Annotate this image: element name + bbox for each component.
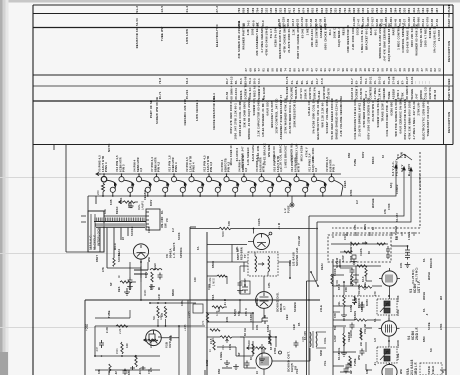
grid cap V5B (269, 232, 272, 235)
svg-text:470K: 470K (350, 189, 353, 196)
svg-text:PIN 3: PIN 3 (122, 164, 126, 172)
svg-text:+245: +245 (187, 311, 191, 318)
svg-text:SCREW TU: SCREW TU (243, 84, 247, 100)
dial lamp resistor (119, 201, 138, 204)
bypass cap (352, 298, 357, 306)
svg-text:PIN 3: PIN 3 (332, 164, 336, 172)
svg-text:68 O: 68 O (150, 284, 153, 290)
svg-text:6CB: 6CB (110, 199, 113, 205)
svg-text:PART NO.: PART NO. (447, 12, 451, 27)
svg-text:79-1: 79-1 (364, 78, 368, 84)
svg-text:.02: .02 (115, 371, 118, 375)
svg-text:31-: 31- (290, 80, 294, 84)
svg-text:30: 30 (301, 68, 305, 72)
svg-text:1000 .047 270K 2.2K 66-1: 1000 .047 270K 2.2K 66-1 (234, 103, 238, 140)
svg-text:66-123: 66-123 (396, 213, 399, 222)
label V6 904SA L.V. RECT (165, 242, 176, 258)
svg-text:WASH: WASH (423, 292, 426, 300)
resistor V3 cathode vertical (343, 295, 345, 307)
svg-text:76: 76 (332, 68, 336, 72)
svg-text:TUBE: TUBE (108, 310, 111, 318)
svg-text:325: 325 (334, 7, 338, 12)
svg-text:100K RESISTOR MI: 100K RESISTOR MI (346, 25, 350, 53)
svg-text:COIL: COIL (338, 347, 341, 354)
svg-text:29: 29 (398, 68, 402, 72)
table row4 entries (158, 76, 431, 84)
svg-text:CONT: CONT (244, 278, 247, 286)
svg-text:50: 50 (380, 68, 384, 72)
wire (235, 347, 237, 356)
svg-text:43: 43 (314, 68, 318, 72)
wire (272, 360, 310, 362)
resistor vert left pair (206, 312, 208, 322)
svg-text:47K: 47K (202, 320, 205, 325)
svg-text:92-: 92- (305, 80, 309, 84)
svg-text:SHI: SHI (218, 307, 221, 312)
svg-text:1000: 1000 (251, 28, 255, 35)
caps stack right (405, 246, 410, 260)
svg-text:PINS 4: PINS 4 (192, 162, 196, 172)
dots (388, 295, 390, 297)
svg-text:TRANS 6: TRANS 6 (294, 86, 298, 99)
link resistor 1 (351, 243, 359, 245)
svg-text:44: 44 (372, 68, 376, 72)
svg-text:18: 18 (424, 68, 428, 72)
table row3 entries (135, 21, 442, 72)
res (349, 356, 351, 366)
pin circle (279, 351, 282, 354)
label 6.3V AC FILAMENT (391, 160, 411, 176)
svg-text:TUBE: TUBE (343, 338, 346, 346)
svg-text:3RD I.F.: 3RD I.F. (414, 361, 418, 375)
svg-text:+245: +245 (183, 324, 187, 331)
svg-text:80: 80 (292, 68, 296, 72)
svg-text:SCRE: SCRE (428, 322, 431, 330)
speaker wires (316, 331, 326, 333)
svg-text:68K: 68K (128, 370, 131, 375)
svg-text:42-: 42- (396, 80, 400, 84)
svg-text:1000 LW-E1 COIL .01 MF: 1000 LW-E1 COIL .01 MF (238, 101, 242, 137)
extra wires bottom middle (207, 321, 262, 323)
svg-text:54-53: 54-53 (135, 18, 139, 26)
svg-text:ASSEMBLY 6CB6 BRACKET 47: ASSEMBLY 6CB6 BRACKET 47 (279, 95, 283, 140)
wire y356 (95, 355, 160, 357)
svg-text:204: 204 (416, 7, 420, 12)
svg-text:38-21: 38-21 (368, 76, 372, 84)
bottom right box (420, 363, 442, 375)
svg-text:270K: 270K (350, 247, 353, 254)
svg-text:ER: ER (403, 154, 407, 158)
svg-text:VO: VO (166, 218, 169, 222)
svg-text:58-: 58- (234, 80, 238, 84)
svg-text:6CB6: 6CB6 (350, 304, 353, 312)
wire (251, 347, 256, 349)
svg-text:BRACKET 66-123: BRACKET 66-123 (364, 24, 368, 49)
resistor V4 cathode (343, 333, 345, 345)
svg-text:33K: 33K (98, 369, 101, 374)
extra wires V1B box (95, 317, 130, 319)
svg-text:66: 66 (275, 68, 279, 72)
svg-text:21-56: 21-56 (225, 91, 229, 99)
svg-text:MI: MI (158, 287, 161, 290)
more wires top right of sound (240, 265, 248, 267)
svg-text:SCREW: SCREW (294, 302, 297, 312)
plug prongs (81, 216, 86, 222)
sw wire (104, 215, 146, 217)
res (113, 258, 115, 266)
svg-text:TP: TP (244, 254, 247, 258)
svg-text:4,5: 4,5 (314, 167, 318, 172)
svg-text:VOLUME: VOLUME (290, 87, 294, 100)
svg-text:470K: 470K (388, 203, 391, 210)
labels (98, 367, 153, 375)
svg-text:VOL: VOL (324, 360, 327, 366)
IF strip shield dashed box (328, 235, 391, 262)
svg-text:CERA: CERA (344, 180, 347, 188)
svg-text:RESI: RESI (321, 263, 324, 270)
svg-text:792: 792 (237, 7, 241, 12)
svg-text:69-: 69- (310, 80, 314, 84)
wire top bend (190, 226, 196, 228)
svg-text:323: 323 (278, 7, 282, 12)
svg-text:TUBE: TUBE (354, 358, 357, 366)
svg-text:62: 62 (433, 68, 437, 72)
svg-text:63-3456 TRANS 1: 63-3456 TRANS 1 (405, 27, 409, 52)
svg-text:1 MEG COIL 5% CH: 1 MEG COIL 5% CH (360, 25, 364, 53)
cap (294, 341, 299, 348)
svg-text:33K: 33K (334, 313, 337, 318)
svg-text:27: 27 (394, 68, 398, 72)
svg-text:L.V.: L.V. (283, 208, 287, 213)
resistor 47K (351, 274, 353, 286)
svg-text:10%: 10% (181, 300, 184, 306)
svg-text:WAS: WAS (364, 224, 367, 230)
extra below V6 (129, 262, 131, 278)
svg-text:2.2K 100K COIL: 2.2K 100K COIL (351, 27, 355, 50)
svg-text:68 O: 68 O (338, 284, 341, 290)
svg-text:52: 52 (438, 68, 442, 72)
svg-text:ELECTROLYTIC 10% .01 MF: ELECTROLYTIC 10% .01 MF (316, 99, 320, 139)
svg-text:59: 59 (407, 68, 411, 72)
IF bus x333 (332, 259, 334, 375)
svg-text:47K O: 47K O (245, 308, 248, 316)
svg-text:303: 303 (306, 7, 310, 12)
svg-text:NOTE: NOTE (107, 143, 111, 152)
v resistors pair (157, 306, 159, 318)
svg-text:600V CHOKE WAS: 600V CHOKE WAS (324, 23, 328, 49)
svg-text:DESCRIPTION: DESCRIPTION (447, 41, 451, 62)
svg-text:33K: 33K (238, 311, 241, 316)
svg-text:470: 470 (374, 291, 377, 296)
svg-text:CONT: CONT (350, 360, 353, 368)
small part gnd (352, 255, 356, 259)
wire (333, 365, 344, 367)
svg-text:658: 658 (324, 7, 328, 12)
svg-text:LW: LW (396, 235, 399, 240)
svg-text:10: 10 (256, 370, 259, 374)
trimmer arrows (258, 263, 264, 266)
B+ 260 bus box (85, 299, 196, 301)
svg-text:SOC: SOC (248, 340, 251, 346)
svg-text:WASHER PART OF: WASHER PART OF (242, 23, 246, 50)
cap (360, 303, 365, 310)
label V3 6CB6 1ST IF (409, 280, 421, 293)
svg-text:444: 444 (412, 7, 416, 12)
svg-text:5600: 5600 (221, 231, 225, 237)
svg-text:63-34: 63-34 (118, 248, 121, 256)
svg-text:150K: 150K (116, 348, 119, 354)
wire x317 down (316, 222, 318, 281)
svg-text:35-224: 35-224 (185, 89, 189, 99)
svg-text:70: 70 (306, 68, 310, 72)
svg-text:RESISTOR 33K: RESISTOR 33K (135, 27, 139, 49)
cap column (99, 340, 104, 348)
cap (354, 278, 359, 285)
svg-text:68-69: 68-69 (305, 18, 309, 26)
svg-text:21-5678 SPRING LW-E1 1: 21-5678 SPRING LW-E1 1 (358, 100, 362, 137)
svg-text:SOCK: SOCK (355, 27, 359, 36)
svg-text:ON-OFF: ON-OFF (160, 216, 164, 228)
cap (350, 323, 355, 330)
svg-text:CERAMI: CERAMI (382, 88, 386, 100)
svg-text:448: 448 (389, 7, 393, 12)
res (109, 364, 111, 372)
tube V5B sound lim (254, 234, 270, 250)
svg-text:97-979: 97-979 (426, 17, 430, 27)
LV ribbon second dash (332, 232, 420, 234)
ground (233, 364, 239, 370)
svg-text:68 OHM 6: 68 OHM 6 (405, 85, 409, 99)
svg-text:1/2: 1/2 (161, 313, 164, 317)
svg-text:64: 64 (288, 68, 292, 72)
svg-text:33K: 33K (228, 221, 231, 226)
svg-text:600V: 600V (145, 271, 148, 278)
sound IF transformer dashed box (248, 252, 278, 276)
svg-text:PART O: PART O (350, 276, 353, 286)
svg-text:SCR: SCR (158, 294, 161, 300)
svg-text:LW: LW (360, 341, 363, 346)
agc dashed (333, 295, 380, 297)
dot (289, 277, 291, 279)
resistor 4.7K (212, 306, 227, 308)
svg-text:WASHER 63-3456 22K: WASHER 63-3456 22K (415, 24, 419, 56)
svg-text:MICA: MICA (114, 243, 117, 250)
svg-text:92-65: 92-65 (430, 18, 434, 26)
svg-text:63-3456 6: 63-3456 6 (235, 147, 239, 161)
svg-text:WW 270K SCREW 21-5678: WW 270K SCREW 21-5678 (394, 98, 398, 136)
svg-text:WA: WA (440, 296, 443, 300)
bus y300 (85, 299, 320, 301)
trimmer caps (386, 246, 390, 259)
pilot lamp and surge resistor (101, 176, 107, 182)
svg-text:88: 88 (279, 68, 283, 72)
svg-text:PART OF SH: PART OF SH (149, 100, 153, 118)
svg-text:10%: 10% (354, 224, 357, 230)
svg-text:33K: 33K (366, 369, 369, 374)
svg-text:60-: 60- (300, 80, 304, 84)
ground symbol (124, 288, 130, 295)
svg-text:532: 532 (384, 7, 388, 12)
svg-text:BRACKET 21-5678: BRACKET 21-5678 (270, 100, 274, 127)
resistor vert bottom (135, 355, 137, 367)
svg-text:BRACK: BRACK (358, 298, 361, 308)
svg-text:SPRING 63-3456 ASSEM: SPRING 63-3456 ASSEM (378, 23, 382, 59)
filter resistor (120, 281, 136, 283)
wire x66 table to transformer (65, 144, 67, 252)
svg-text:LW-E1 WASHER .01 MF TR: LW-E1 WASHER .01 MF TR (261, 98, 265, 137)
resistor 1 MEG horizontal (207, 275, 217, 277)
svg-text:100K RESISTOR 10: 100K RESISTOR 10 (293, 99, 297, 127)
wire 3.9V feed (309, 167, 404, 216)
IF transformer 2 dashed (377, 347, 397, 363)
svg-text:5%: 5% (334, 325, 337, 330)
svg-text:LW-E1 BRACKE: LW-E1 BRACKE (262, 143, 266, 165)
main bus wires (189, 227, 191, 302)
wire (278, 261, 290, 263)
svg-text:21-5: 21-5 (210, 338, 213, 344)
dot (308, 299, 310, 301)
res (210, 329, 220, 331)
svg-text:.01: .01 (374, 362, 377, 366)
svg-text:PINS 4: PINS 4 (104, 162, 108, 172)
svg-text:470K CHOKE SHIEL: 470K CHOKE SHIEL (283, 24, 287, 53)
svg-text:56K: 56K (153, 315, 156, 320)
wire (107, 267, 141, 269)
TO TUNER bracket (396, 154, 412, 160)
svg-text:VOLUME: VOLUME (358, 284, 361, 296)
svg-text:SHIEL: SHIEL (256, 297, 259, 306)
svg-text:COIL: COIL (324, 337, 327, 344)
svg-text:DESCRIPTION: DESCRIPTION (447, 112, 451, 133)
svg-text:84-13: 84-13 (230, 76, 234, 84)
svg-text:BRACK: BRACK (430, 258, 433, 268)
resistor V4 grid (355, 319, 367, 321)
grid v4 (366, 327, 372, 329)
svg-text:29-: 29- (382, 80, 386, 84)
svg-text:100: 100 (194, 277, 197, 282)
wire x95 vertical (94, 326, 96, 356)
wire y244 (207, 244, 247, 246)
svg-text:6CB6 5% 10%: 6CB6 5% 10% (273, 27, 277, 47)
svg-text:2.2K: 2.2K (106, 327, 109, 333)
svg-text:600V 22K SCR: 600V 22K SCR (410, 26, 414, 47)
svg-text:194: 194 (421, 7, 425, 12)
svg-text:ASSEMB: ASSEMB (319, 25, 323, 38)
svg-text:63-345: 63-345 (301, 28, 305, 38)
wires V8 mesh (207, 312, 253, 314)
svg-text:189: 189 (251, 7, 255, 12)
misc small labels (106, 199, 433, 366)
svg-text:CERAM: CERAM (144, 190, 147, 200)
fold line (0, 177, 460, 179)
svg-text:CAPA: CAPA (258, 218, 261, 226)
svg-text:44-459: 44-459 (352, 17, 356, 27)
wire x54 stub (53, 144, 55, 150)
agc line (355, 266, 357, 275)
wire (333, 351, 356, 353)
svg-text:REF: REF (447, 78, 451, 84)
svg-text:2.2K CAPACITOR 63-3456: 2.2K CAPACITOR 63-3456 (256, 99, 260, 136)
svg-text:66-1: 66-1 (328, 29, 332, 35)
svg-text:814: 814 (380, 7, 384, 12)
svg-text:704: 704 (255, 7, 259, 12)
table row5 entries (158, 84, 437, 100)
svg-text:66-: 66- (161, 210, 164, 214)
wires sound section (207, 261, 248, 263)
small box right (193, 304, 203, 313)
svg-text:928: 928 (352, 7, 356, 12)
svg-text:90: 90 (341, 68, 345, 72)
svg-text:270K 6BN6 ASSEMB: 270K 6BN6 ASSEMB (362, 98, 366, 127)
wire y326 long (95, 325, 205, 327)
svg-text:27-2: 27-2 (215, 6, 219, 13)
svg-text:SP: SP (238, 352, 241, 356)
svg-text:VOL: VOL (296, 368, 299, 374)
parts table frame (33, 5, 453, 145)
svg-text:PART NO.: PART NO. (447, 85, 451, 100)
svg-text:4,5: 4,5 (244, 167, 248, 172)
resistor 150K vertical (331, 274, 333, 286)
wire y303 (150, 302, 196, 304)
svg-text:LW-: LW- (338, 301, 341, 306)
svg-text:ASSEM: ASSEM (391, 88, 395, 99)
tube V6 L.V. rectifier (133, 244, 148, 259)
svg-text:658: 658 (246, 7, 250, 12)
svg-text:HTR 9: HTR 9 (297, 163, 301, 172)
svg-text:87-: 87- (401, 80, 405, 84)
svg-text:467: 467 (435, 7, 439, 12)
svg-text:40MF: 40MF (144, 289, 147, 296)
svg-text:1/2W 5%: 1/2W 5% (308, 87, 312, 100)
svg-text:195: 195 (274, 7, 278, 12)
svg-text:10%: 10% (268, 282, 271, 288)
svg-text:.0047: .0047 (139, 367, 142, 375)
wire (333, 305, 352, 307)
svg-text:SCREW WW 68 OH: SCREW WW 68 OH (155, 97, 159, 124)
svg-text:DIAL: DIAL (137, 204, 141, 210)
svg-text:66-1: 66-1 (374, 29, 378, 35)
svg-text:532: 532 (260, 7, 264, 12)
svg-text:PIN 4,5: PIN 4,5 (227, 161, 231, 172)
labels bottom (128, 367, 151, 375)
svg-text:SOCK: SOCK (334, 268, 337, 276)
svg-text:LW-E1 CO: LW-E1 CO (307, 101, 311, 116)
svg-text:384: 384 (347, 7, 351, 12)
cap (360, 349, 365, 356)
svg-text:52: 52 (376, 68, 380, 72)
svg-text:SCREW 2: SCREW 2 (257, 86, 261, 100)
more IF labels (334, 241, 431, 368)
svg-text:.01 M: .01 M (278, 223, 281, 230)
power transformer T1 (88, 209, 160, 252)
schematic notes text (107, 143, 315, 168)
svg-text:69: 69 (248, 68, 252, 72)
svg-text:47K: 47K (102, 267, 105, 272)
svg-text:37-86: 37-86 (391, 76, 395, 84)
svg-text:TO: TO (396, 154, 400, 158)
svg-text:6AU8 CAPA: 6AU8 CAPA (251, 145, 255, 161)
svg-text:600V CAPACITOR 66-1234 S: 600V CAPACITOR 66-1234 S (403, 99, 407, 140)
dots on bus (157, 325, 159, 327)
svg-text:1 MEG AS: 1 MEG AS (253, 85, 257, 99)
svg-text:63-98: 63-98 (243, 76, 247, 84)
svg-text:1/2W: 1/2W (342, 255, 345, 262)
res (151, 272, 153, 282)
svg-text:PIN 4,5: PIN 4,5 (157, 161, 161, 172)
svg-text:WASHE: WASHE (410, 89, 414, 100)
svg-text:2.2K: 2.2K (246, 29, 250, 35)
svg-text:765: 765 (315, 7, 319, 12)
